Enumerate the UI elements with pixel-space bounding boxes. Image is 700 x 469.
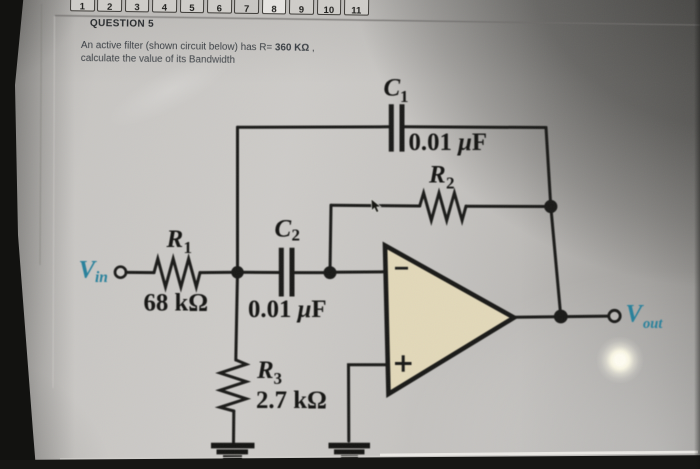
resistor R1 [154,259,200,287]
wire Vin to R1 [126,271,154,274]
top feedback wire with capacitor C1 [238,125,391,129]
capacitor C2 [281,248,292,297]
mouse cursor [371,199,381,212]
wire C2 to node B [295,271,330,274]
op-amp non-inverting input wire [349,365,389,441]
wire node B to op-amp inverting input [330,270,386,274]
capacitor C1 [391,104,402,151]
wire R3 to ground [232,411,235,444]
wire node A to C2 [238,271,281,274]
Vout terminal [609,310,620,321]
wire R1 to node A [200,271,238,274]
glare reflection blob [596,337,644,383]
wire R2 to node C [466,205,551,208]
Vin terminal [115,267,126,278]
label Vout [626,301,664,333]
op-amp U1 [385,246,514,395]
dark left bezel wedge [0,0,64,469]
wire node A down to R3 [236,272,238,360]
wire node A up to feedback C1 [236,127,239,272]
ground symbol below R3 [211,446,255,458]
bezel reflection line [40,4,42,265]
node D output junction dot [554,310,568,324]
node B junction dot [324,266,337,279]
wire to resistor R2 [331,204,420,208]
resistor R2 [420,193,466,221]
dark bottom bezel strip [0,438,700,469]
quiz navigation tabs 1-11 [0,0,700,40]
right rail wire down [546,128,561,317]
node A junction dot [231,266,244,279]
panel top border line [55,16,700,25]
op-amp output wire [513,316,610,317]
question text [81,40,315,68]
ground symbol below op-amp + input [329,446,371,458]
question header [90,18,154,30]
wire C1 to right rail [403,125,546,129]
soft sheen streak top-left [61,3,280,176]
wire node B up to R2 [330,205,331,272]
node C junction dot [544,200,557,213]
resistor R3 [220,360,246,411]
label Vin [79,257,108,287]
dark right bezel strip [694,0,700,469]
panel left border line [53,16,55,388]
